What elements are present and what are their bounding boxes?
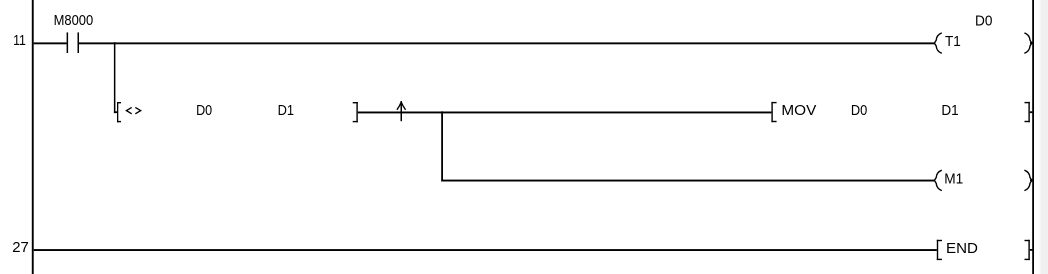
coil M1 [934,170,1033,190]
pulse contact (rising edge) [397,101,406,121]
coil T1 [934,33,1033,53]
svg-text:T1: T1 [945,33,961,50]
wire rung1: rail to contact [34,42,67,44]
comparison contact [<> D0 D1] : open bracket [117,102,121,122]
svg-text:END: END [946,240,978,257]
svg-text:D1: D1 [278,102,294,119]
right power rail [1032,0,1034,274]
wire rung3: branch to coil M1 [441,180,935,182]
svg-text:M8000: M8000 [54,12,94,29]
wire: branch from rung2 down to coil M1 rung [441,111,443,181]
svg-text:D0: D0 [851,102,867,119]
svg-text:D1: D1 [941,102,958,119]
svg-text:11: 11 [13,32,26,49]
wire rung4: rail to END [34,249,937,251]
wire rung1: contact to coil T1 [79,42,935,44]
instruction END close bracket [1025,240,1033,260]
instruction MOV open bracket [771,102,776,122]
svg-text:D0: D0 [196,102,212,119]
left power rail [32,0,34,274]
comparison operator <> [126,107,140,113]
instruction END open bracket [937,240,942,260]
wire rung2: comparison to MOV [358,112,772,114]
svg-text:D0: D0 [975,12,992,29]
comparison contact close bracket [353,102,358,122]
instruction MOV close bracket [1025,102,1033,122]
contact M8000 [54,12,94,53]
svg-text:MOV: MOV [781,102,816,119]
wire: branch from rung1 down to rung2 [114,42,118,113]
svg-text:M1: M1 [944,171,963,188]
svg-text:27: 27 [12,239,29,256]
